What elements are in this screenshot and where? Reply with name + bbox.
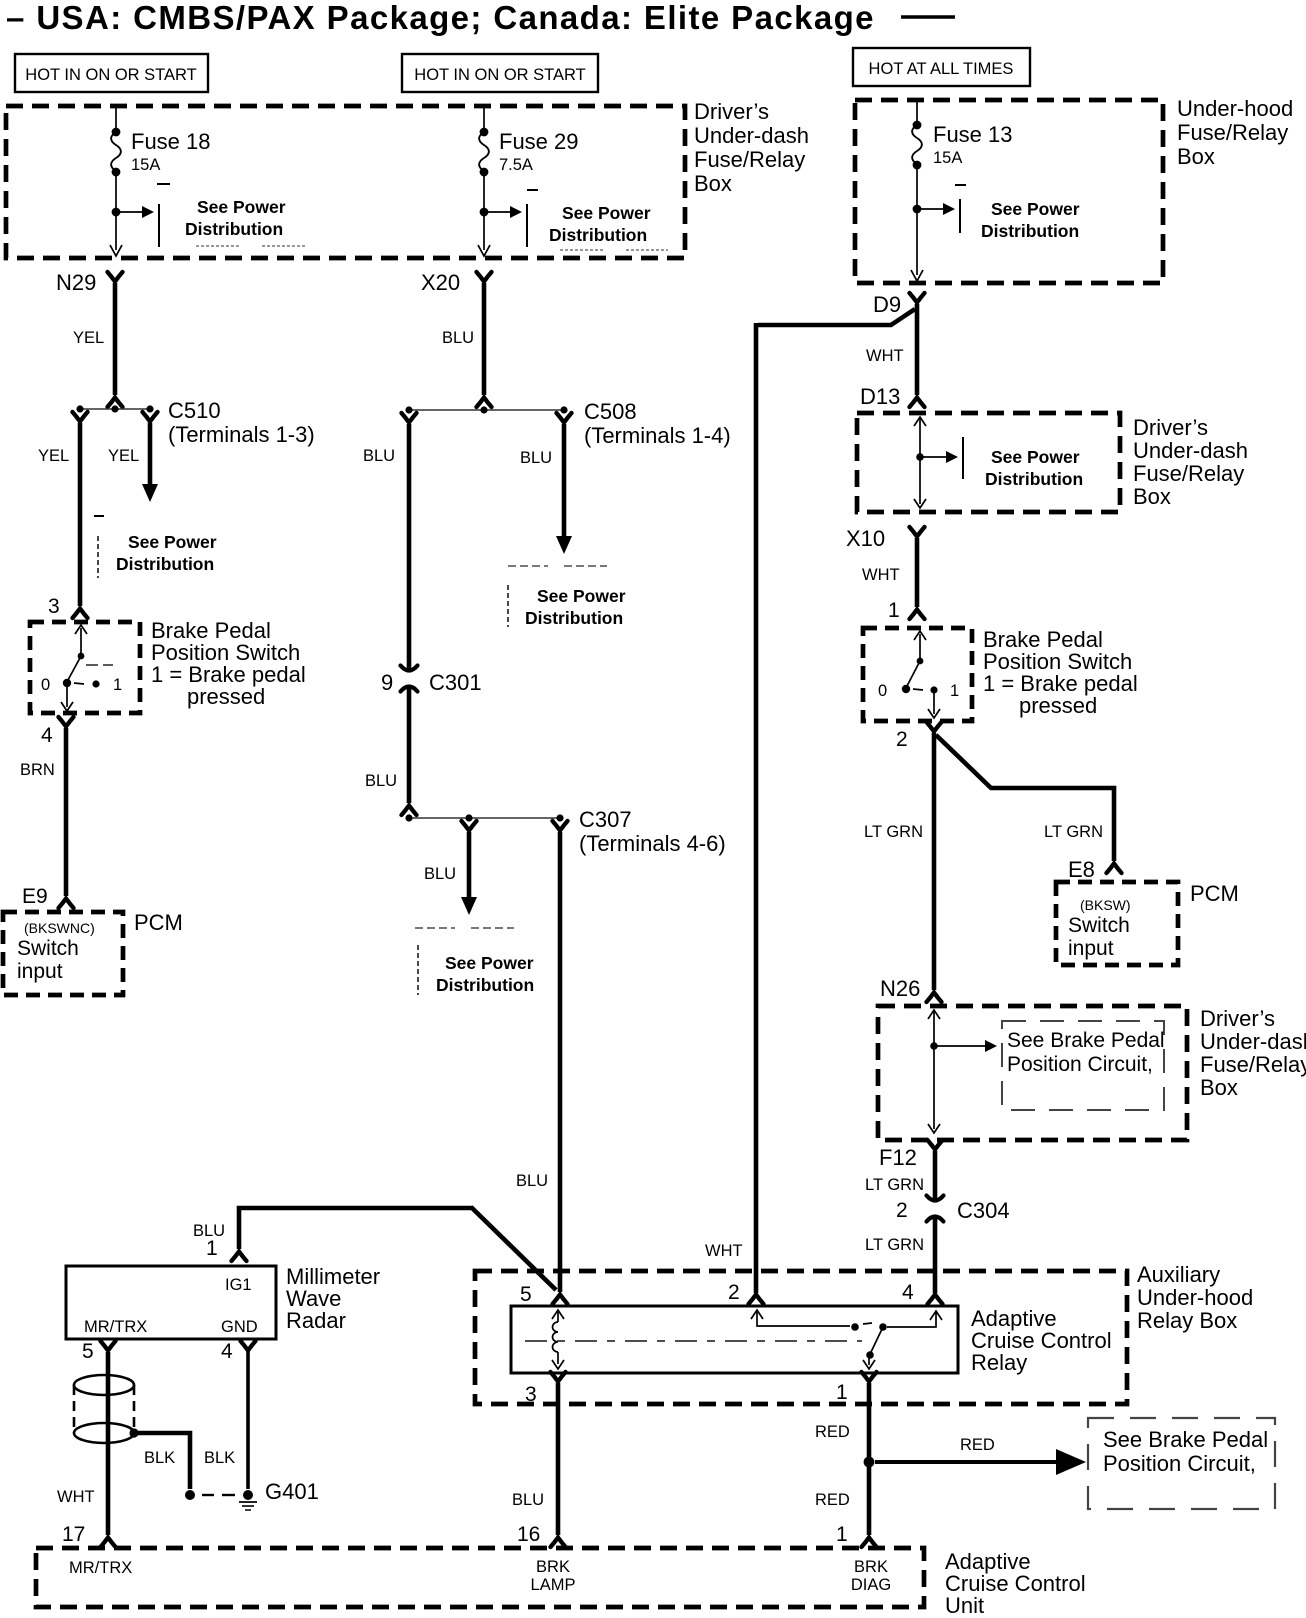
wire N29 to C510 (YEL) (108, 283, 123, 407)
svg-text:1: 1 (113, 676, 122, 694)
fuse F13 15A (911, 100, 1013, 281)
svg-text:N29: N29 (56, 270, 96, 295)
svg-text:See Power: See Power (537, 586, 626, 606)
svg-text:Fuse/Relay: Fuse/Relay (1133, 461, 1244, 486)
wire C301 to C307 (BLU) (365, 685, 417, 815)
wire X20 to C508 (BLU) (477, 283, 492, 407)
svg-text:4: 4 (902, 1281, 914, 1304)
svg-text:BLU: BLU (424, 865, 456, 883)
svg-text:4: 4 (41, 724, 53, 747)
see power distribution (fuse 13) (913, 199, 1080, 241)
svg-text:HOT IN ON OR START: HOT IN ON OR START (25, 66, 196, 84)
svg-text:1: 1 (888, 599, 900, 622)
PCM box (BKSWNC switch input) (3, 912, 123, 995)
svg-text:MR/TRX: MR/TRX (84, 1318, 147, 1336)
svg-text:7.5A: 7.5A (499, 156, 533, 174)
branch C508 to power distribution (BLU arrow) (508, 424, 626, 628)
node X10 (846, 526, 925, 551)
svg-text:Switch: Switch (1068, 914, 1130, 937)
svg-text:HOT IN ON OR START: HOT IN ON OR START (414, 66, 585, 84)
wire branch switch 2 to E8 (LT GRN) (936, 735, 1122, 873)
wire switch 2 to N26 (LT GRN) (864, 722, 942, 1002)
fuse F18 15A (110, 106, 211, 256)
wire C508 to C301 (BLU) (363, 424, 409, 671)
svg-text:X10: X10 (846, 526, 885, 551)
wire X10 to switch pin 1 (WHT) (862, 538, 925, 619)
svg-text:Distribution: Distribution (116, 554, 214, 574)
svg-text:Distribution: Distribution (525, 608, 623, 628)
svg-text:C301: C301 (429, 670, 482, 695)
svg-text:Fuse 18: Fuse 18 (131, 129, 211, 154)
svg-text:See Power: See Power (991, 199, 1080, 219)
adaptive cruise control unit (36, 1548, 924, 1607)
svg-text:YEL: YEL (73, 329, 104, 347)
svg-text:BLK: BLK (144, 1449, 175, 1467)
wire C304 to relay pin 4 (LT GRN) (865, 1218, 943, 1304)
svg-text:BLK: BLK (204, 1449, 235, 1467)
label Brake Pedal Position Switch (left) (151, 618, 306, 709)
brake pedal position switch S1 (30, 622, 140, 713)
brake pedal position switch S2 (863, 628, 972, 721)
svg-text:3: 3 (48, 595, 60, 618)
svg-text:Auxiliary: Auxiliary (1137, 1262, 1220, 1287)
driver's under-dash fuse/relay box 2 (857, 413, 1120, 512)
svg-text:2: 2 (728, 1281, 740, 1304)
svg-text:Under-dash: Under-dash (1200, 1029, 1306, 1054)
svg-text:Fuse/Relay: Fuse/Relay (1177, 120, 1288, 145)
svg-text:Distribution: Distribution (549, 225, 647, 245)
svg-text:See Power: See Power (562, 203, 651, 223)
svg-text:BLU: BLU (516, 1172, 548, 1190)
svg-text:4: 4 (221, 1340, 233, 1363)
svg-text:E9: E9 (22, 885, 48, 908)
millimeter wave radar U1 (66, 1266, 276, 1339)
svg-text:C510: C510 (168, 398, 221, 423)
svg-text:Fuse 29: Fuse 29 (499, 129, 579, 154)
branch C510 to power distribution (YEL arrow) (94, 423, 217, 578)
junction node RED (864, 1457, 875, 1468)
svg-text:WHT: WHT (57, 1488, 95, 1506)
svg-text:Radar: Radar (286, 1308, 346, 1333)
svg-text:BLU: BLU (363, 447, 395, 465)
svg-text:Distribution: Distribution (981, 221, 1079, 241)
see brake pedal position circuit box (1088, 1418, 1275, 1509)
driver's under-dash fuse/relay box 1 (6, 106, 685, 258)
svg-text:Under-dash: Under-dash (694, 123, 809, 148)
svg-text:PCM: PCM (134, 910, 183, 935)
svg-text:WHT: WHT (862, 566, 900, 584)
svg-text:E8: E8 (1068, 857, 1095, 882)
svg-text:0: 0 (41, 676, 50, 694)
svg-text:See Power: See Power (197, 197, 286, 217)
svg-text:Fuse/Relay: Fuse/Relay (1200, 1052, 1306, 1077)
svg-text:D13: D13 (860, 384, 900, 409)
svg-text:N26: N26 (880, 976, 920, 1001)
svg-text:Switch: Switch (17, 937, 79, 960)
svg-text:X20: X20 (421, 270, 460, 295)
svg-text:BLU: BLU (520, 449, 552, 467)
svg-text:RED: RED (960, 1436, 995, 1454)
svg-text:WHT: WHT (866, 347, 904, 365)
svg-text:pressed: pressed (1019, 693, 1097, 718)
svg-text:Fuse/Relay: Fuse/Relay (694, 147, 805, 172)
svg-text:pressed: pressed (187, 684, 265, 709)
svg-text:Relay Box: Relay Box (1137, 1308, 1237, 1333)
svg-text:BRK: BRK (854, 1558, 888, 1576)
label HOT IN ON OR START (middle) (402, 54, 598, 92)
svg-text:Fuse 13: Fuse 13 (933, 122, 1013, 147)
svg-text:0: 0 (878, 682, 887, 700)
svg-text:Box: Box (1200, 1075, 1238, 1100)
node D9 (873, 292, 925, 317)
shield cylinder (74, 1375, 139, 1443)
adaptive cruise control relay K1 (511, 1306, 958, 1373)
svg-text:– USA: CMBS/PAX Package; Canad: – USA: CMBS/PAX Package; Canada: Elite P… (6, 0, 875, 36)
svg-text:MR/TRX: MR/TRX (69, 1559, 132, 1577)
branch C307 to power distribution (BLU arrow) (415, 832, 534, 995)
svg-text:(Terminals 4-6): (Terminals 4-6) (579, 831, 726, 856)
title (6, 0, 955, 36)
wire D9 branch to relay pin 2 (WHT) (705, 309, 915, 1304)
svg-text:15A: 15A (131, 156, 160, 174)
label Driver's Under-dash Fuse/Relay Box (694, 99, 809, 196)
wire C307 to relay pin 5 (BLU) (516, 832, 560, 1292)
node N29 (56, 270, 123, 295)
svg-text:G401: G401 (265, 1479, 319, 1504)
svg-text:16: 16 (517, 1523, 540, 1546)
label Driver's Under-dash Fuse/Relay Box 2 (1133, 415, 1248, 509)
svg-text:WHT: WHT (705, 1242, 743, 1260)
connector C508 (402, 399, 731, 448)
svg-text:(Terminals 1-4): (Terminals 1-4) (584, 423, 731, 448)
svg-text:17: 17 (62, 1523, 85, 1546)
svg-text:HOT AT ALL TIMES: HOT AT ALL TIMES (869, 60, 1014, 78)
svg-text:input: input (1068, 937, 1114, 960)
svg-text:F12: F12 (879, 1145, 917, 1170)
connector C307 (405, 807, 725, 856)
svg-text:Driver’s: Driver’s (694, 99, 769, 124)
wire radar MR/TRX to ACC unit (WHT) (57, 1341, 116, 1547)
svg-text:LT GRN: LT GRN (865, 1176, 924, 1194)
node F12 (865, 1140, 943, 1201)
svg-text:LAMP: LAMP (531, 1576, 576, 1594)
auxiliary under-hood relay box (475, 1271, 1127, 1404)
label HOT IN ON OR START (left) (15, 54, 208, 92)
svg-text:1: 1 (206, 1237, 218, 1260)
svg-text:Distribution: Distribution (436, 975, 534, 995)
svg-text:Box: Box (1177, 144, 1215, 169)
ground G401 (185, 1479, 319, 1510)
svg-text:YEL: YEL (108, 447, 139, 465)
svg-text:See Brake Pedal: See Brake Pedal (1007, 1029, 1165, 1052)
svg-text:2: 2 (896, 728, 908, 751)
svg-text:Distribution: Distribution (185, 219, 283, 239)
connector C301 pin 9 (381, 666, 482, 696)
svg-text:Driver’s: Driver’s (1200, 1006, 1275, 1031)
svg-text:BLU: BLU (512, 1491, 544, 1509)
svg-text:BRK: BRK (536, 1558, 570, 1576)
svg-text:YEL: YEL (38, 447, 69, 465)
connector C510 (73, 398, 315, 447)
svg-text:Position Circuit,: Position Circuit, (1103, 1451, 1256, 1476)
svg-text:RED: RED (815, 1491, 850, 1509)
driver's under-dash fuse/relay box 3 (878, 1006, 1187, 1140)
under-hood fuse/relay box (855, 100, 1163, 283)
node X20 (421, 270, 492, 295)
label HOT AT ALL TIMES (853, 48, 1030, 86)
label Under-hood Fuse/Relay Box (1177, 96, 1293, 169)
svg-text:Unit: Unit (945, 1593, 984, 1618)
svg-text:(Terminals 1-3): (Terminals 1-3) (168, 422, 315, 447)
see power distribution (fuse 18) (112, 197, 306, 247)
svg-text:See Brake Pedal: See Brake Pedal (1103, 1427, 1268, 1452)
fuse F29 7.5A (478, 106, 579, 256)
svg-text:9: 9 (381, 670, 393, 695)
label Millimeter Wave Radar (286, 1264, 380, 1333)
svg-text:1: 1 (836, 1381, 848, 1404)
svg-text:C508: C508 (584, 399, 637, 424)
svg-text:input: input (17, 960, 63, 983)
svg-text:Position Circuit,: Position Circuit, (1007, 1053, 1153, 1076)
svg-text:C307: C307 (579, 807, 632, 832)
svg-text:D9: D9 (873, 292, 901, 317)
svg-text:Driver’s: Driver’s (1133, 415, 1208, 440)
svg-text:PCM: PCM (1190, 881, 1239, 906)
svg-text:IG1: IG1 (225, 1276, 252, 1294)
svg-text:2: 2 (896, 1199, 908, 1222)
svg-text:BLU: BLU (365, 772, 397, 790)
svg-text:See Power: See Power (991, 447, 1080, 467)
svg-text:Under-hood: Under-hood (1137, 1285, 1253, 1310)
svg-text:Box: Box (1133, 484, 1171, 509)
label Brake Pedal Position Switch (right) (983, 627, 1138, 718)
svg-text:LT GRN: LT GRN (864, 823, 923, 841)
svg-text:LT GRN: LT GRN (865, 1236, 924, 1254)
wire shield to G401 (BLK) (136, 1433, 190, 1489)
svg-text:5: 5 (520, 1283, 532, 1306)
wire relay 3 to ACC unit BRK LAMP (BLU) (512, 1372, 566, 1547)
branch RED arrow to brake pedal position circuit (875, 1436, 1086, 1475)
wire D9 to D13 (WHT) (866, 304, 925, 407)
svg-text:3: 3 (525, 1383, 537, 1406)
svg-text:C304: C304 (957, 1198, 1010, 1223)
svg-text:5: 5 (82, 1340, 94, 1363)
svg-text:Under-hood: Under-hood (1177, 96, 1293, 121)
svg-text:1: 1 (836, 1523, 848, 1546)
PCM box (BKSW switch input) (1056, 882, 1178, 965)
svg-text:Relay: Relay (971, 1350, 1027, 1375)
svg-text:(BKSWNC): (BKSWNC) (24, 920, 95, 936)
svg-text:Distribution: Distribution (985, 469, 1083, 489)
svg-text:DIAG: DIAG (851, 1576, 891, 1594)
label Adaptive Cruise Control Relay (971, 1306, 1112, 1375)
svg-text:RED: RED (815, 1423, 850, 1441)
svg-text:Box: Box (694, 171, 732, 196)
connector C304 pin 2 (896, 1196, 1010, 1224)
wire C510 terminal 3 to brake switch (YEL) (38, 423, 139, 618)
svg-text:See Power: See Power (445, 953, 534, 973)
wire radar GND to G401 (BLK) (204, 1341, 256, 1489)
wire switch to E9 (BRN) (20, 717, 74, 908)
svg-text:15A: 15A (933, 149, 962, 167)
label Adaptive Cruise Control Unit (945, 1549, 1086, 1618)
svg-text:LT GRN: LT GRN (1044, 823, 1103, 841)
wire relay 1 to ACC unit BRK DIAG (RED) (815, 1372, 877, 1547)
label Auxiliary Under-hood Relay Box (1137, 1262, 1253, 1333)
svg-text:Under-dash: Under-dash (1133, 438, 1248, 463)
svg-text:1: 1 (950, 682, 959, 700)
svg-text:BLU: BLU (442, 329, 474, 347)
see power distribution (fuse 29) (480, 203, 668, 250)
svg-text:GND: GND (221, 1318, 258, 1336)
label Driver's Under-dash Fuse/Relay Box 3 (1200, 1006, 1306, 1100)
wire BLU feed to radar IG1 pin 1 (193, 1207, 568, 1304)
svg-text:See Power: See Power (128, 532, 217, 552)
svg-text:(BKSW): (BKSW) (1080, 897, 1131, 913)
svg-text:BRN: BRN (20, 761, 55, 779)
